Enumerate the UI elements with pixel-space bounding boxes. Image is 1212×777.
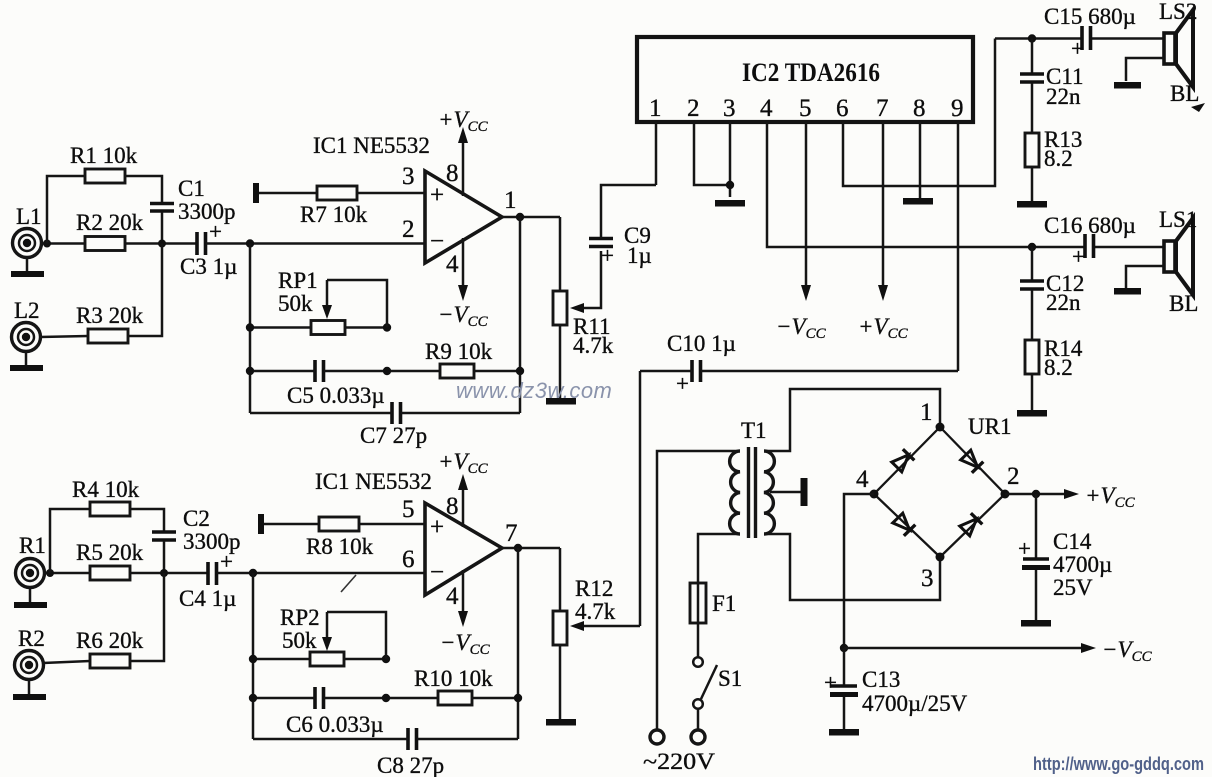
node C5 mid bbox=[383, 367, 391, 375]
svg-text:R2: R2 bbox=[18, 626, 45, 651]
-Vcc output line and arrow bbox=[844, 637, 1153, 665]
switch S1 bbox=[693, 657, 742, 709]
wire node2 to +Vcc bbox=[1005, 493, 1066, 496]
wire output down to R11 bbox=[559, 217, 562, 291]
svg-text:L1: L1 bbox=[16, 204, 42, 229]
RP2 wiper arm bbox=[322, 612, 386, 659]
capacitor C14 bbox=[1018, 494, 1112, 600]
svg-text:R4 10k: R4 10k bbox=[72, 477, 140, 502]
resistor R3 bbox=[76, 303, 144, 343]
wire pin4 to LS1 line bbox=[767, 122, 995, 247]
RP1 wiper arm bbox=[322, 280, 387, 328]
wire LS2 output line bbox=[995, 37, 1166, 40]
ground (R1 jack) bbox=[14, 587, 47, 608]
ground (L1) bbox=[11, 257, 44, 277]
svg-text:R1: R1 bbox=[19, 533, 46, 558]
ground (R14) bbox=[1017, 410, 1047, 417]
svg-text:+: + bbox=[430, 182, 444, 209]
svg-text:1: 1 bbox=[920, 399, 933, 426]
svg-text:R1 10k: R1 10k bbox=[70, 143, 138, 168]
svg-text:C3 1µ: C3 1µ bbox=[180, 254, 237, 279]
svg-text:4: 4 bbox=[856, 466, 869, 493]
input terminal stub (R8 left) bbox=[261, 514, 319, 534]
wire output pin7 bbox=[500, 547, 560, 550]
wire R2 to junction bbox=[125, 242, 197, 245]
node LS2 line junction bbox=[1028, 34, 1036, 42]
input jack L1 bbox=[13, 204, 42, 258]
wire R12 bottom to ground bbox=[559, 645, 562, 720]
svg-text:−VCC: −VCC bbox=[1102, 637, 1153, 665]
diode D3 (edge 4-3) bbox=[892, 512, 915, 535]
svg-text:+: + bbox=[1018, 536, 1031, 561]
svg-text:+: + bbox=[1072, 244, 1085, 269]
wire junction down feedback left rail bbox=[249, 244, 252, 414]
svg-text:F1: F1 bbox=[712, 591, 736, 616]
wire pin5 -Vcc arrow bbox=[776, 122, 827, 342]
svg-text:C13: C13 bbox=[862, 667, 900, 692]
wire secondary bottom to bridge node 3 bbox=[764, 534, 940, 600]
svg-text:22n: 22n bbox=[1046, 290, 1081, 315]
+Vcc arrow (opamp2) bbox=[438, 449, 489, 527]
ground (LS1) bbox=[1114, 288, 1141, 295]
wire junction down feedback left rail 2 bbox=[252, 573, 255, 739]
ground (IC2 pin8) bbox=[903, 198, 933, 205]
svg-text:C7 27p: C7 27p bbox=[360, 423, 427, 448]
svg-text:RP2: RP2 bbox=[280, 605, 320, 630]
svg-text:2: 2 bbox=[687, 95, 700, 122]
input jack L2 bbox=[12, 298, 41, 352]
svg-text:IC1 NE5532: IC1 NE5532 bbox=[315, 469, 432, 494]
svg-text:+VCC: +VCC bbox=[438, 449, 489, 477]
capacitor C2 bbox=[152, 506, 241, 554]
svg-text:3: 3 bbox=[723, 95, 736, 122]
svg-text:+: + bbox=[209, 219, 222, 244]
svg-text:+: + bbox=[430, 514, 444, 541]
wire up to R4 bbox=[50, 509, 90, 573]
node R10 right bbox=[514, 694, 522, 702]
-Vcc arrow (opamp1 pin4) bbox=[438, 238, 489, 330]
ground (R12) bbox=[546, 719, 576, 726]
svg-text:8: 8 bbox=[446, 160, 459, 187]
wire junction down to R6 bbox=[130, 573, 164, 661]
node 4 (bridge left) bbox=[856, 466, 879, 499]
wire RP1 row bbox=[250, 326, 387, 329]
speaker LS2 bbox=[1159, 0, 1199, 106]
wire C14 to ground bbox=[1035, 570, 1038, 620]
wire switch to terminal bbox=[697, 709, 700, 730]
wire R13 to ground bbox=[1031, 167, 1034, 201]
svg-text:7: 7 bbox=[876, 95, 889, 122]
terminal circle (mains right) bbox=[691, 730, 705, 744]
svg-text:1: 1 bbox=[504, 187, 517, 214]
svg-text:7: 7 bbox=[505, 520, 518, 547]
potentiometer RP1 bbox=[278, 268, 345, 335]
svg-text:4: 4 bbox=[446, 583, 459, 610]
svg-text:R6 20k: R6 20k bbox=[76, 628, 144, 653]
svg-text:2: 2 bbox=[402, 216, 415, 243]
svg-text:C15 680µ: C15 680µ bbox=[1044, 4, 1136, 29]
wire C6 row bbox=[253, 697, 438, 700]
svg-text:6: 6 bbox=[402, 546, 415, 573]
node LS1 line junction bbox=[1028, 243, 1036, 251]
wire pin2 bbox=[694, 122, 730, 185]
svg-text:C10 1µ: C10 1µ bbox=[667, 331, 736, 356]
transformer center tap terminal bbox=[770, 478, 804, 506]
input jack R1 bbox=[16, 533, 46, 588]
svg-text:3: 3 bbox=[402, 163, 415, 190]
node output junction 2 bbox=[514, 544, 522, 552]
wire LS1 output line bbox=[995, 246, 1166, 249]
svg-text:4700µ/25V: 4700µ/25V bbox=[862, 691, 968, 716]
op-amp U1B IC1 NE5532 bbox=[315, 469, 502, 595]
node C6 mid bbox=[382, 694, 390, 702]
node input junction 2 bbox=[249, 569, 257, 577]
wire LS1 ground lead bbox=[1126, 266, 1164, 288]
wire primary top to left terminal bbox=[657, 451, 740, 730]
svg-text:C2: C2 bbox=[183, 506, 210, 531]
+Vcc output arrow bbox=[1064, 483, 1136, 511]
resistor R6 bbox=[76, 628, 144, 668]
svg-text:R2 20k: R2 20k bbox=[76, 210, 144, 235]
wire fuse to switch bbox=[697, 623, 700, 657]
svg-text:−VCC: −VCC bbox=[440, 630, 491, 658]
svg-text:R7 10k: R7 10k bbox=[300, 202, 368, 227]
svg-text:BL: BL bbox=[1169, 291, 1198, 316]
resistor R2 bbox=[76, 210, 144, 251]
resistor R7 bbox=[300, 186, 368, 227]
wire output pin1 bbox=[500, 216, 560, 219]
resistor R13 bbox=[1025, 127, 1082, 171]
diode D2 (edge 1-2) bbox=[960, 449, 983, 472]
svg-text:8.2: 8.2 bbox=[1044, 146, 1073, 171]
svg-text:−VCC: −VCC bbox=[438, 302, 489, 330]
node R1 junction bbox=[46, 569, 54, 577]
svg-text:5: 5 bbox=[402, 496, 415, 523]
wire junction down to R3 bbox=[127, 244, 162, 337]
capacitor C4 bbox=[179, 549, 236, 611]
diode D1 (edge 4-1) bbox=[891, 449, 914, 472]
wire C2 to junction bbox=[163, 541, 166, 573]
capacitor C9 bbox=[589, 223, 652, 268]
svg-text:C4 1µ: C4 1µ bbox=[179, 586, 236, 611]
+Vcc arrow (opamp1 pin8) bbox=[438, 107, 489, 196]
node 2 (bridge right) bbox=[1001, 463, 1020, 499]
svg-text:−VCC: −VCC bbox=[776, 314, 827, 342]
svg-text:C6 0.033µ: C6 0.033µ bbox=[286, 712, 384, 737]
wire R1 to C1 top bbox=[125, 176, 162, 202]
svg-text:1: 1 bbox=[649, 95, 662, 122]
svg-text:25V: 25V bbox=[1053, 575, 1093, 600]
svg-text:+VCC: +VCC bbox=[438, 107, 489, 135]
capacitor C6 bbox=[286, 687, 384, 737]
resistor R8 bbox=[306, 517, 374, 559]
-Vcc arrow (opamp2) bbox=[440, 570, 491, 658]
resistor R5 bbox=[76, 540, 144, 580]
resistor R14 bbox=[1025, 336, 1083, 380]
ground (L2) bbox=[10, 351, 43, 371]
node RP2 left bbox=[249, 655, 257, 663]
svg-text:IC1 NE5532: IC1 NE5532 bbox=[313, 133, 430, 158]
wire C9 up to IC2 pin1 bbox=[601, 185, 656, 238]
wire pin6 to LS2 rail bbox=[843, 39, 995, 187]
terminal circle (mains left) bbox=[650, 730, 664, 744]
svg-text:RP1: RP1 bbox=[278, 268, 318, 293]
wire C8 row bbox=[253, 738, 518, 741]
svg-text:C8 27p: C8 27p bbox=[377, 753, 444, 777]
ground (IC2 pin3) bbox=[715, 200, 745, 207]
svg-text:3300p: 3300p bbox=[178, 199, 236, 224]
node C13 junction bbox=[840, 644, 848, 652]
wire R7 to pin3 bbox=[357, 192, 425, 195]
potentiometer R11 bbox=[553, 291, 614, 358]
node R9 right bbox=[516, 367, 524, 375]
capacitor C10 bbox=[667, 331, 736, 396]
wire LS2 ground lead bbox=[1126, 58, 1164, 81]
fuse F1 bbox=[690, 583, 736, 623]
capacitor C11 bbox=[1020, 39, 1084, 110]
node C5 left bbox=[246, 367, 254, 375]
svg-text:R12: R12 bbox=[575, 576, 613, 601]
ground (C13) bbox=[829, 729, 859, 736]
svg-text:5: 5 bbox=[799, 95, 812, 122]
speaker LS1 bbox=[1159, 207, 1198, 316]
svg-text:−: − bbox=[430, 559, 444, 586]
wire C10 left down to R12 wiper bbox=[639, 371, 642, 626]
wire pin3 bbox=[729, 122, 732, 197]
wire C4 to opamp minus input bbox=[217, 572, 425, 575]
svg-text:C1: C1 bbox=[178, 176, 205, 201]
capacitor C3 bbox=[180, 219, 237, 279]
wire C11 to R13 bbox=[1031, 83, 1034, 133]
IC U2 IC2 TDA2616 bbox=[637, 37, 973, 122]
wire feedback vertical bbox=[519, 217, 522, 413]
resistor R4 bbox=[72, 477, 140, 516]
svg-text:4: 4 bbox=[446, 251, 459, 278]
wire C13 to ground bbox=[843, 697, 846, 729]
capacitor C7 bbox=[360, 402, 427, 448]
bridge rectifier UR1 diamond bbox=[874, 414, 1011, 557]
capacitor C16 bbox=[1044, 213, 1136, 269]
svg-text:1µ: 1µ bbox=[627, 243, 652, 268]
input jack R2 bbox=[15, 626, 45, 680]
wire C1 to junction bbox=[161, 212, 164, 244]
node C14 junction bbox=[1032, 490, 1040, 498]
wire feedback vertical 2 bbox=[517, 548, 520, 739]
R11 wiper arrow bbox=[570, 251, 601, 313]
resistor R10 bbox=[414, 666, 493, 705]
svg-text:C16 680µ: C16 680µ bbox=[1044, 213, 1136, 238]
wire R2 jack to R6 bbox=[43, 661, 90, 663]
svg-text:S1: S1 bbox=[718, 666, 742, 691]
svg-text:+: + bbox=[220, 549, 233, 574]
wire pin1 bbox=[655, 122, 658, 185]
node L1 junction bbox=[43, 240, 51, 248]
wire secondary top to bridge node 1 bbox=[764, 389, 940, 451]
wire primary bottom to fuse bbox=[698, 534, 740, 583]
capacitor C13 bbox=[824, 648, 968, 716]
svg-text:http://www.go-gddq.com: http://www.go-gddq.com bbox=[1033, 754, 1204, 774]
wire pin7 +Vcc arrow bbox=[858, 122, 909, 342]
wire output down to R12 bbox=[559, 548, 562, 611]
capacitor C5 bbox=[287, 360, 385, 408]
capacitor C8 bbox=[377, 728, 444, 777]
wire R10 to feedback bbox=[472, 697, 518, 700]
R12 wiper arrow bbox=[570, 621, 640, 631]
node pin2-pin3 junction bbox=[726, 181, 734, 189]
wire up to R1 bbox=[47, 176, 85, 244]
svg-text:−: − bbox=[430, 228, 444, 255]
wire C3 to opamp minus input bbox=[206, 242, 425, 245]
svg-text:~220V: ~220V bbox=[643, 749, 715, 774]
svg-text:2: 2 bbox=[1007, 463, 1020, 490]
svg-text:4.7k: 4.7k bbox=[573, 333, 614, 358]
op-amp U1A IC1 NE5532 bbox=[313, 133, 502, 263]
wire R4 to C2 top bbox=[130, 509, 164, 531]
input terminal stub (R7 left) bbox=[256, 183, 317, 203]
wire C7 row bbox=[250, 412, 520, 415]
svg-text:3: 3 bbox=[921, 565, 934, 592]
wire pin9 down to C10 bbox=[957, 122, 960, 371]
ground (C14) bbox=[1021, 620, 1051, 627]
wire C10 row bbox=[640, 370, 958, 373]
node 1 (bridge top) bbox=[920, 399, 945, 432]
ground (LS2) bbox=[1114, 82, 1141, 89]
svg-text:8: 8 bbox=[446, 493, 459, 520]
svg-text:8: 8 bbox=[913, 95, 926, 122]
svg-text:BL: BL bbox=[1170, 81, 1199, 106]
wire RP2 row bbox=[253, 658, 386, 661]
ground (R2 jack) bbox=[13, 679, 46, 700]
node C2/R5 junction bbox=[160, 569, 168, 577]
svg-text:+: + bbox=[601, 243, 614, 268]
wire R9 to feedback bbox=[474, 370, 520, 373]
svg-text:4.7k: 4.7k bbox=[575, 599, 616, 624]
svg-text:IC2 TDA2616: IC2 TDA2616 bbox=[742, 58, 880, 87]
node RP2 right bbox=[382, 655, 390, 663]
potentiometer R12 bbox=[553, 576, 616, 645]
transformer T1 core bbox=[749, 447, 756, 538]
transformer T1 primary winding bbox=[730, 418, 767, 534]
capacitor C15 bbox=[1044, 4, 1136, 61]
svg-text:LS2: LS2 bbox=[1159, 0, 1197, 24]
wire L2 to R3 bbox=[40, 336, 88, 337]
capacitor C1 bbox=[150, 176, 236, 224]
svg-text:T1: T1 bbox=[741, 418, 767, 443]
resistor R1 bbox=[70, 143, 138, 183]
svg-text:8.2: 8.2 bbox=[1044, 355, 1073, 380]
potentiometer RP2 bbox=[280, 605, 344, 666]
svg-text:+: + bbox=[676, 371, 689, 396]
svg-text:+: + bbox=[824, 670, 837, 695]
svg-text:R8 10k: R8 10k bbox=[306, 534, 374, 559]
svg-text:C5 0.033µ: C5 0.033µ bbox=[287, 383, 385, 408]
svg-text:R5 20k: R5 20k bbox=[76, 540, 144, 565]
wire R1 jack to node bbox=[44, 572, 90, 575]
wire R8 to pin5 bbox=[359, 523, 425, 526]
wire pin8 bbox=[919, 122, 922, 198]
node C1/R2 junction bbox=[158, 240, 166, 248]
node 3 (bridge bottom) bbox=[921, 553, 945, 593]
wire node4 down to C13 junction bbox=[844, 494, 874, 648]
resistor R9 bbox=[425, 339, 493, 378]
transformer T1 secondary winding bbox=[764, 451, 774, 534]
svg-text:UR1: UR1 bbox=[968, 414, 1011, 439]
svg-text:R10 10k: R10 10k bbox=[414, 666, 493, 691]
svg-text:4700µ: 4700µ bbox=[1053, 552, 1112, 577]
svg-text:22n: 22n bbox=[1046, 84, 1081, 109]
svg-text:4: 4 bbox=[760, 95, 773, 122]
svg-text:+VCC: +VCC bbox=[858, 314, 909, 342]
svg-text:50k: 50k bbox=[282, 628, 317, 653]
node C6 left bbox=[249, 694, 257, 702]
stray mark bbox=[341, 575, 356, 592]
wire R11 bottom to ground bbox=[559, 325, 562, 399]
svg-text:R9 10k: R9 10k bbox=[425, 339, 493, 364]
ground (R11) bbox=[546, 398, 576, 405]
svg-text:9: 9 bbox=[951, 95, 964, 122]
wire L1 to node bbox=[41, 242, 85, 245]
svg-text:6: 6 bbox=[836, 95, 849, 122]
node RP1 left bbox=[246, 323, 254, 331]
svg-text:50k: 50k bbox=[278, 291, 313, 316]
LS2 arrow artifact bbox=[1191, 103, 1205, 112]
svg-text:C14: C14 bbox=[1053, 529, 1092, 554]
diode D4 (edge 3-2) bbox=[959, 513, 982, 536]
wire C12 to R14 bbox=[1031, 290, 1034, 340]
wire R5 to junction bbox=[130, 572, 208, 575]
capacitor C12 bbox=[1020, 247, 1084, 315]
svg-text:+: + bbox=[1071, 36, 1084, 61]
node input junction bbox=[246, 239, 254, 247]
ground (R13) bbox=[1017, 201, 1047, 208]
svg-text:L2: L2 bbox=[14, 298, 40, 323]
wire R14 to ground bbox=[1031, 374, 1034, 410]
node output junction bbox=[516, 213, 524, 221]
svg-text:LS1: LS1 bbox=[1159, 207, 1197, 232]
svg-text:www.dz3w.com: www.dz3w.com bbox=[456, 378, 612, 403]
svg-text:+VCC: +VCC bbox=[1085, 483, 1136, 511]
svg-text:R3 20k: R3 20k bbox=[76, 303, 144, 328]
node RP1 right bbox=[383, 323, 391, 331]
wire C5 row bbox=[250, 370, 440, 373]
